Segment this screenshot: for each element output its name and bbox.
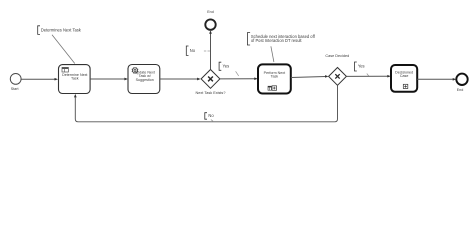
wire sequence flow Yes: gateway to Perform Next Task [220, 77, 258, 80]
text annotation: Yes (second gateway) [355, 62, 365, 71]
svg-text:Yes: Yes [358, 64, 365, 69]
association: annotation to Determine Next Task [52, 35, 75, 64]
svg-text:Case: Case [400, 74, 409, 78]
start event [10, 74, 21, 92]
svg-text:Start: Start [11, 87, 19, 91]
association: Yes to flow line [367, 74, 369, 77]
svg-text:Yes: Yes [223, 64, 230, 69]
svg-text:Task: Task [71, 77, 79, 81]
svg-text:Determines Next Task: Determines Next Task [41, 27, 82, 32]
call activity Perform Next Task [258, 64, 291, 93]
association: No to flow line [204, 50, 210, 52]
wire sequence flow No: gateway up to End (top) [209, 30, 212, 69]
text annotation: Determines Next Task [38, 26, 82, 35]
wire sequence flow Yes: Case Decided to Decisioned Case [346, 75, 390, 78]
service task Update Next Task w/ Suggestion [128, 65, 160, 94]
wire sequence flow No: loop back from Case Decided to Determine Next Task [74, 85, 338, 122]
svg-text:No: No [208, 113, 214, 118]
wire sequence flow: Decisioned Case to End [417, 78, 456, 81]
text annotation: No (bottom) [205, 113, 215, 120]
svg-text:End: End [207, 10, 214, 14]
svg-text:Task: Task [271, 75, 279, 79]
gateway Case Decided (exclusive) [325, 54, 349, 85]
association: annotation to Perform Next Task [271, 46, 274, 62]
wire sequence flow: Determine to Update task [90, 78, 128, 81]
wire sequence flow: Perform Next Task to Case Decided gateway [291, 75, 329, 78]
text annotation: Schedule next interaction [247, 33, 315, 45]
end event (top) [205, 10, 215, 30]
svg-text:Suggestion: Suggestion [136, 78, 154, 82]
text annotation: No (top) [186, 46, 195, 55]
svg-text:No: No [190, 48, 196, 53]
task Determine Next Task (business rule) [59, 65, 91, 94]
svg-text:Case Decided: Case Decided [325, 54, 349, 58]
svg-text:of Post Interaction DT result: of Post Interaction DT result [251, 38, 303, 43]
text annotation: Yes (first gateway) [219, 62, 229, 70]
call activity Decisioned Case [391, 65, 417, 92]
wire sequence flow: start to Determine Next Task [21, 78, 58, 81]
end event (right) [456, 74, 467, 92]
association: Yes to flow line [236, 71, 239, 76]
association: No to loop line [211, 120, 214, 122]
wire sequence flow: Update task to gateway [160, 78, 201, 81]
svg-text:End: End [457, 88, 464, 92]
gateway Next Task Exists? (exclusive) [196, 70, 226, 96]
svg-text:Next Task Exists?: Next Task Exists? [196, 91, 226, 95]
